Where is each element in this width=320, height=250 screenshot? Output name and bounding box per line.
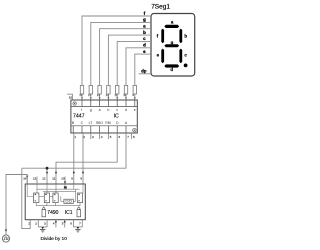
- wire segment a to resistor R3: [100, 29, 151, 86]
- 7490 top pin 13 tick: [36, 177, 38, 185]
- segment d: [164, 64, 179, 72]
- resistor R1: [79, 85, 84, 100]
- 7490 internal flip-flop FF4: [77, 193, 82, 203]
- segment a: [164, 20, 179, 29]
- 7447 bottom pin dividers: [73, 126, 126, 133]
- svg-text:e: e: [143, 49, 146, 54]
- clock source V1: [2, 230, 9, 243]
- svg-text:RBI: RBI: [105, 121, 110, 125]
- svg-text:d: d: [143, 43, 146, 48]
- svg-text:6: 6: [119, 135, 121, 139]
- svg-text:2: 2: [83, 135, 85, 139]
- 7490 internal gate: [64, 199, 73, 203]
- svg-text:a: a: [99, 108, 101, 112]
- svg-text:d: d: [170, 67, 173, 72]
- decimal point dp: [184, 64, 188, 68]
- segment f: [157, 29, 164, 44]
- svg-text:c: c: [116, 108, 118, 112]
- svg-text:g: g: [90, 108, 92, 112]
- 7447 pin 3 stub LT: [90, 133, 92, 139]
- segment c: [179, 49, 187, 64]
- junction node QA: [46, 167, 49, 170]
- 7447 top pin dividers: [82, 100, 135, 107]
- wire QA riser to junction: [46, 168, 48, 184]
- 7490 internal rail 2: [43, 190, 76, 192]
- wire dp stub: [139, 73, 151, 75]
- 7447 pin 8 GND stub: [131, 133, 133, 139]
- svg-text:2: 2: [35, 221, 37, 225]
- svg-text:c: c: [143, 36, 146, 41]
- 7490 top pin 9 arrow: [73, 171, 75, 173]
- svg-text:3: 3: [44, 221, 46, 225]
- 7447 power marker bottom-right: [133, 129, 136, 132]
- 7490 bottom pin 6 stub: [73, 220, 75, 227]
- 7490 internal pullup R left: [42, 207, 46, 216]
- svg-text:e: e: [157, 52, 160, 57]
- svg-text:d: d: [125, 108, 127, 112]
- wire 7447 B pin1 to 7490 QB pin9: [73, 133, 75, 184]
- segment g: [164, 40, 179, 48]
- svg-text:f: f: [81, 108, 82, 112]
- svg-text:c: c: [184, 52, 187, 57]
- svg-text:7: 7: [127, 135, 129, 139]
- ground GND1: [40, 227, 45, 232]
- svg-text:g: g: [143, 17, 146, 22]
- svg-text:dp: dp: [141, 69, 147, 74]
- svg-text:8: 8: [81, 177, 83, 181]
- wire segment d to resistor R6: [126, 48, 151, 86]
- svg-text:f: f: [144, 11, 146, 16]
- 7490 internal wire pin14 to FF1: [27, 184, 33, 197]
- svg-text:e: e: [134, 108, 136, 112]
- wire clock source to 7490 INA pin14: [6, 175, 27, 235]
- resistor R4: [106, 85, 111, 100]
- IC1 7490 body: [25, 184, 85, 220]
- svg-text:IC: IC: [114, 114, 119, 120]
- 7490 internal pin risers: [37, 184, 83, 193]
- 7490 bottom pin 4 stub: [55, 220, 57, 228]
- 7490 top pin 14 tick: [26, 176, 28, 184]
- wire 7447 D pin6 to 7490 QD pin11: [56, 133, 117, 184]
- wire set pins 6-7 join: [74, 226, 83, 228]
- svg-text:B: B: [72, 121, 75, 125]
- 7490 bottom pin 5 stub: [64, 220, 66, 228]
- svg-text:16: 16: [69, 95, 73, 99]
- 7490 top pin 10 tick: [64, 177, 66, 185]
- resistor R2: [88, 85, 93, 100]
- svg-text:13: 13: [33, 177, 37, 181]
- svg-text:7: 7: [79, 221, 81, 225]
- 7490 internal flip-flop FF2: [44, 193, 49, 203]
- svg-text:3: 3: [92, 135, 94, 139]
- wire QA wrap to 7490 INB pin1: [22, 168, 30, 228]
- wire segment c to resistor R5: [117, 41, 151, 86]
- svg-text:10: 10: [123, 93, 127, 97]
- svg-text:7490: 7490: [47, 210, 58, 216]
- svg-text:9: 9: [71, 177, 73, 181]
- svg-text:14: 14: [23, 177, 27, 181]
- svg-text:f: f: [157, 34, 159, 39]
- svg-text:Divide by 10: Divide by 10: [41, 236, 68, 242]
- svg-text:1: 1: [75, 135, 77, 139]
- svg-text:7447: 7447: [73, 114, 85, 120]
- segment b: [179, 29, 187, 44]
- wire segment f from display to resistor R1: [82, 16, 151, 86]
- svg-text:A: A: [125, 121, 128, 125]
- svg-text:5: 5: [62, 221, 64, 225]
- segment e: [157, 49, 164, 64]
- wire 7447 C pin2 to 7490 QC pin8: [82, 133, 84, 184]
- wire segment e to resistor R7: [135, 54, 151, 86]
- 7447 pin 5 stub RBI: [107, 133, 109, 139]
- svg-text:5: 5: [110, 135, 112, 139]
- svg-text:11: 11: [114, 93, 117, 97]
- wire segment b to resistor R4: [108, 35, 151, 86]
- 7490 internal pullup R right: [77, 207, 81, 216]
- svg-text:LT: LT: [89, 121, 94, 125]
- svg-text:D: D: [116, 121, 119, 125]
- svg-text:b: b: [184, 34, 187, 39]
- svg-text:a: a: [143, 24, 146, 29]
- 7447 pin 4 stub RBO: [99, 133, 101, 139]
- 7490 bottom pin 7 stub: [81, 220, 83, 227]
- 7490 internal vertical links: [36, 189, 80, 207]
- svg-text:12: 12: [42, 177, 46, 181]
- 7490 internal flip-flop FF3: [53, 193, 58, 203]
- svg-text:10: 10: [61, 177, 65, 181]
- 7490 internal rail bottom: [36, 205, 80, 207]
- 7447 pin 16 stub: [67, 94, 72, 100]
- svg-text:b: b: [143, 30, 146, 35]
- resistor R6: [123, 85, 128, 100]
- svg-text:15: 15: [79, 93, 83, 97]
- 7490 pin10 internal block: [64, 186, 67, 188]
- 7490 bottom pin 2 stub: [37, 220, 39, 227]
- 7490 internal rail 1: [37, 188, 80, 190]
- svg-text:7Seg1: 7Seg1: [151, 4, 170, 11]
- 7490 internal flip-flop FF1: [34, 193, 39, 203]
- svg-text:13: 13: [97, 93, 101, 97]
- svg-text:RBO: RBO: [96, 121, 103, 125]
- svg-text:6: 6: [70, 221, 72, 225]
- svg-text:b: b: [107, 108, 109, 112]
- 7-segment display body: [151, 14, 195, 77]
- svg-text:14: 14: [88, 93, 92, 97]
- IC 7447 body: [71, 100, 137, 133]
- 7490 bottom pin 3 stub: [46, 220, 48, 227]
- 7490 top pin 12 tick with arrow: [46, 171, 48, 173]
- svg-text:g: g: [171, 40, 174, 45]
- 7490 top pin 11 tick with arrow: [55, 171, 57, 173]
- svg-text:C: C: [81, 121, 84, 125]
- 7490 top pin 8 arrow: [82, 171, 84, 173]
- svg-text:a: a: [171, 20, 174, 25]
- wire segment g to resistor R2: [91, 22, 151, 86]
- svg-text:4: 4: [101, 135, 103, 139]
- 7447 power marker top-left: [73, 102, 76, 105]
- svg-text:8: 8: [133, 135, 135, 139]
- wire reset pins 2-3 join: [38, 226, 47, 228]
- resistor R7: [132, 85, 136, 100]
- ground GND2: [75, 227, 80, 232]
- clock input arrow at pin14: [26, 176, 28, 178]
- svg-text:4: 4: [53, 221, 55, 225]
- resistor R5: [114, 85, 119, 100]
- wire 7447 A pin7 to 7490 QA pin12: [22, 133, 126, 168]
- svg-text:IC1: IC1: [65, 210, 73, 216]
- svg-text:11: 11: [52, 177, 55, 181]
- resistor R3: [97, 85, 102, 100]
- svg-text:12: 12: [106, 93, 110, 97]
